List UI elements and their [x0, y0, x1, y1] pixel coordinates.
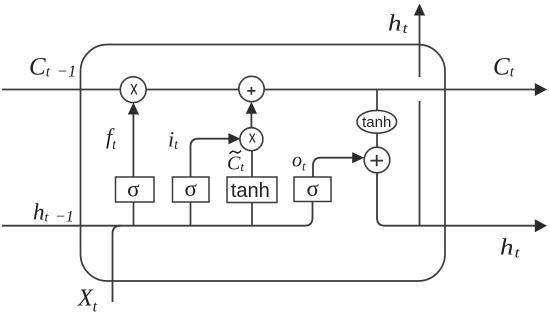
wire h_t branch going up (lower segment)	[419, 101, 421, 226]
wire tanh ellipse down to add node 2	[376, 133, 378, 147]
wire tanh-box down to h line	[251, 203, 253, 226]
gate sigma3 (output) box	[294, 176, 331, 202]
wire hidden-state input h line with curve up into sigma3	[2, 201, 313, 226]
wire multiply2 up to add node with arrowhead	[246, 102, 257, 128]
svg-text:Ct−1: Ct−1	[29, 54, 76, 81]
svg-text:x: x	[130, 78, 138, 99]
svg-text:ht: ht	[388, 11, 408, 38]
label C_{t-1}	[29, 54, 76, 81]
svg-text:σ: σ	[184, 176, 197, 201]
svg-text:Ct: Ct	[227, 153, 244, 175]
wire cell-state C line	[2, 89, 537, 91]
label i_t	[168, 127, 179, 154]
svg-text:σ: σ	[306, 176, 319, 201]
label X_t	[77, 286, 98, 316]
svg-text:Xt: Xt	[77, 286, 98, 316]
label f_t	[106, 124, 117, 153]
gate tanh box	[227, 177, 277, 203]
add node A1 on C line	[239, 76, 264, 101]
svg-text:ht−1: ht−1	[33, 200, 74, 226]
wire tanh-box up to multiply node 2	[251, 150, 253, 177]
svg-text:ht: ht	[500, 235, 520, 262]
arrowhead C_t output	[535, 83, 547, 96]
wire i: sigma2 up and right into multiply node 2 with arrowhead	[191, 133, 241, 177]
label C_t	[493, 54, 515, 81]
svg-text:ft: ft	[106, 124, 117, 153]
wire h_t branch going up (upper segment) with arrowhead	[414, 4, 425, 78]
svg-text:x: x	[249, 127, 256, 146]
wire f: sigma1 up to multiply node with arrowhead	[128, 103, 139, 178]
gate sigma1 (forget) box	[116, 176, 155, 202]
label h_{t-1}	[33, 200, 74, 226]
gate sigma2 (input) box	[173, 176, 210, 202]
add node A2	[364, 147, 390, 173]
label o_t	[292, 150, 306, 174]
outer LSTM cell rounded box	[81, 45, 446, 282]
svg-text:it: it	[168, 127, 179, 154]
label h_t top	[388, 11, 408, 38]
wire sigma2 down to h line	[190, 202, 192, 226]
label h_t bottom right	[500, 235, 520, 262]
multiply node X1 on C line	[120, 77, 146, 103]
wire sigma1 down to h line	[133, 202, 135, 226]
wire o: sigma3 up and right into add node 2 with arrowhead	[313, 152, 364, 177]
svg-text:ot: ot	[292, 150, 306, 174]
label C-tilde_t	[227, 151, 244, 175]
multiply node X2	[240, 127, 263, 150]
svg-text:tanh: tanh	[362, 114, 391, 131]
svg-text:tanh: tanh	[231, 180, 270, 202]
wire X_t input joining h line	[113, 226, 121, 302]
wire C line down to tanh ellipse	[376, 90, 378, 111]
svg-text:σ: σ	[127, 176, 140, 201]
tanh ellipse	[357, 110, 397, 133]
svg-text:Ct: Ct	[493, 54, 515, 81]
wire h_t output: add node 2 down then right with arrowhead	[377, 173, 547, 232]
